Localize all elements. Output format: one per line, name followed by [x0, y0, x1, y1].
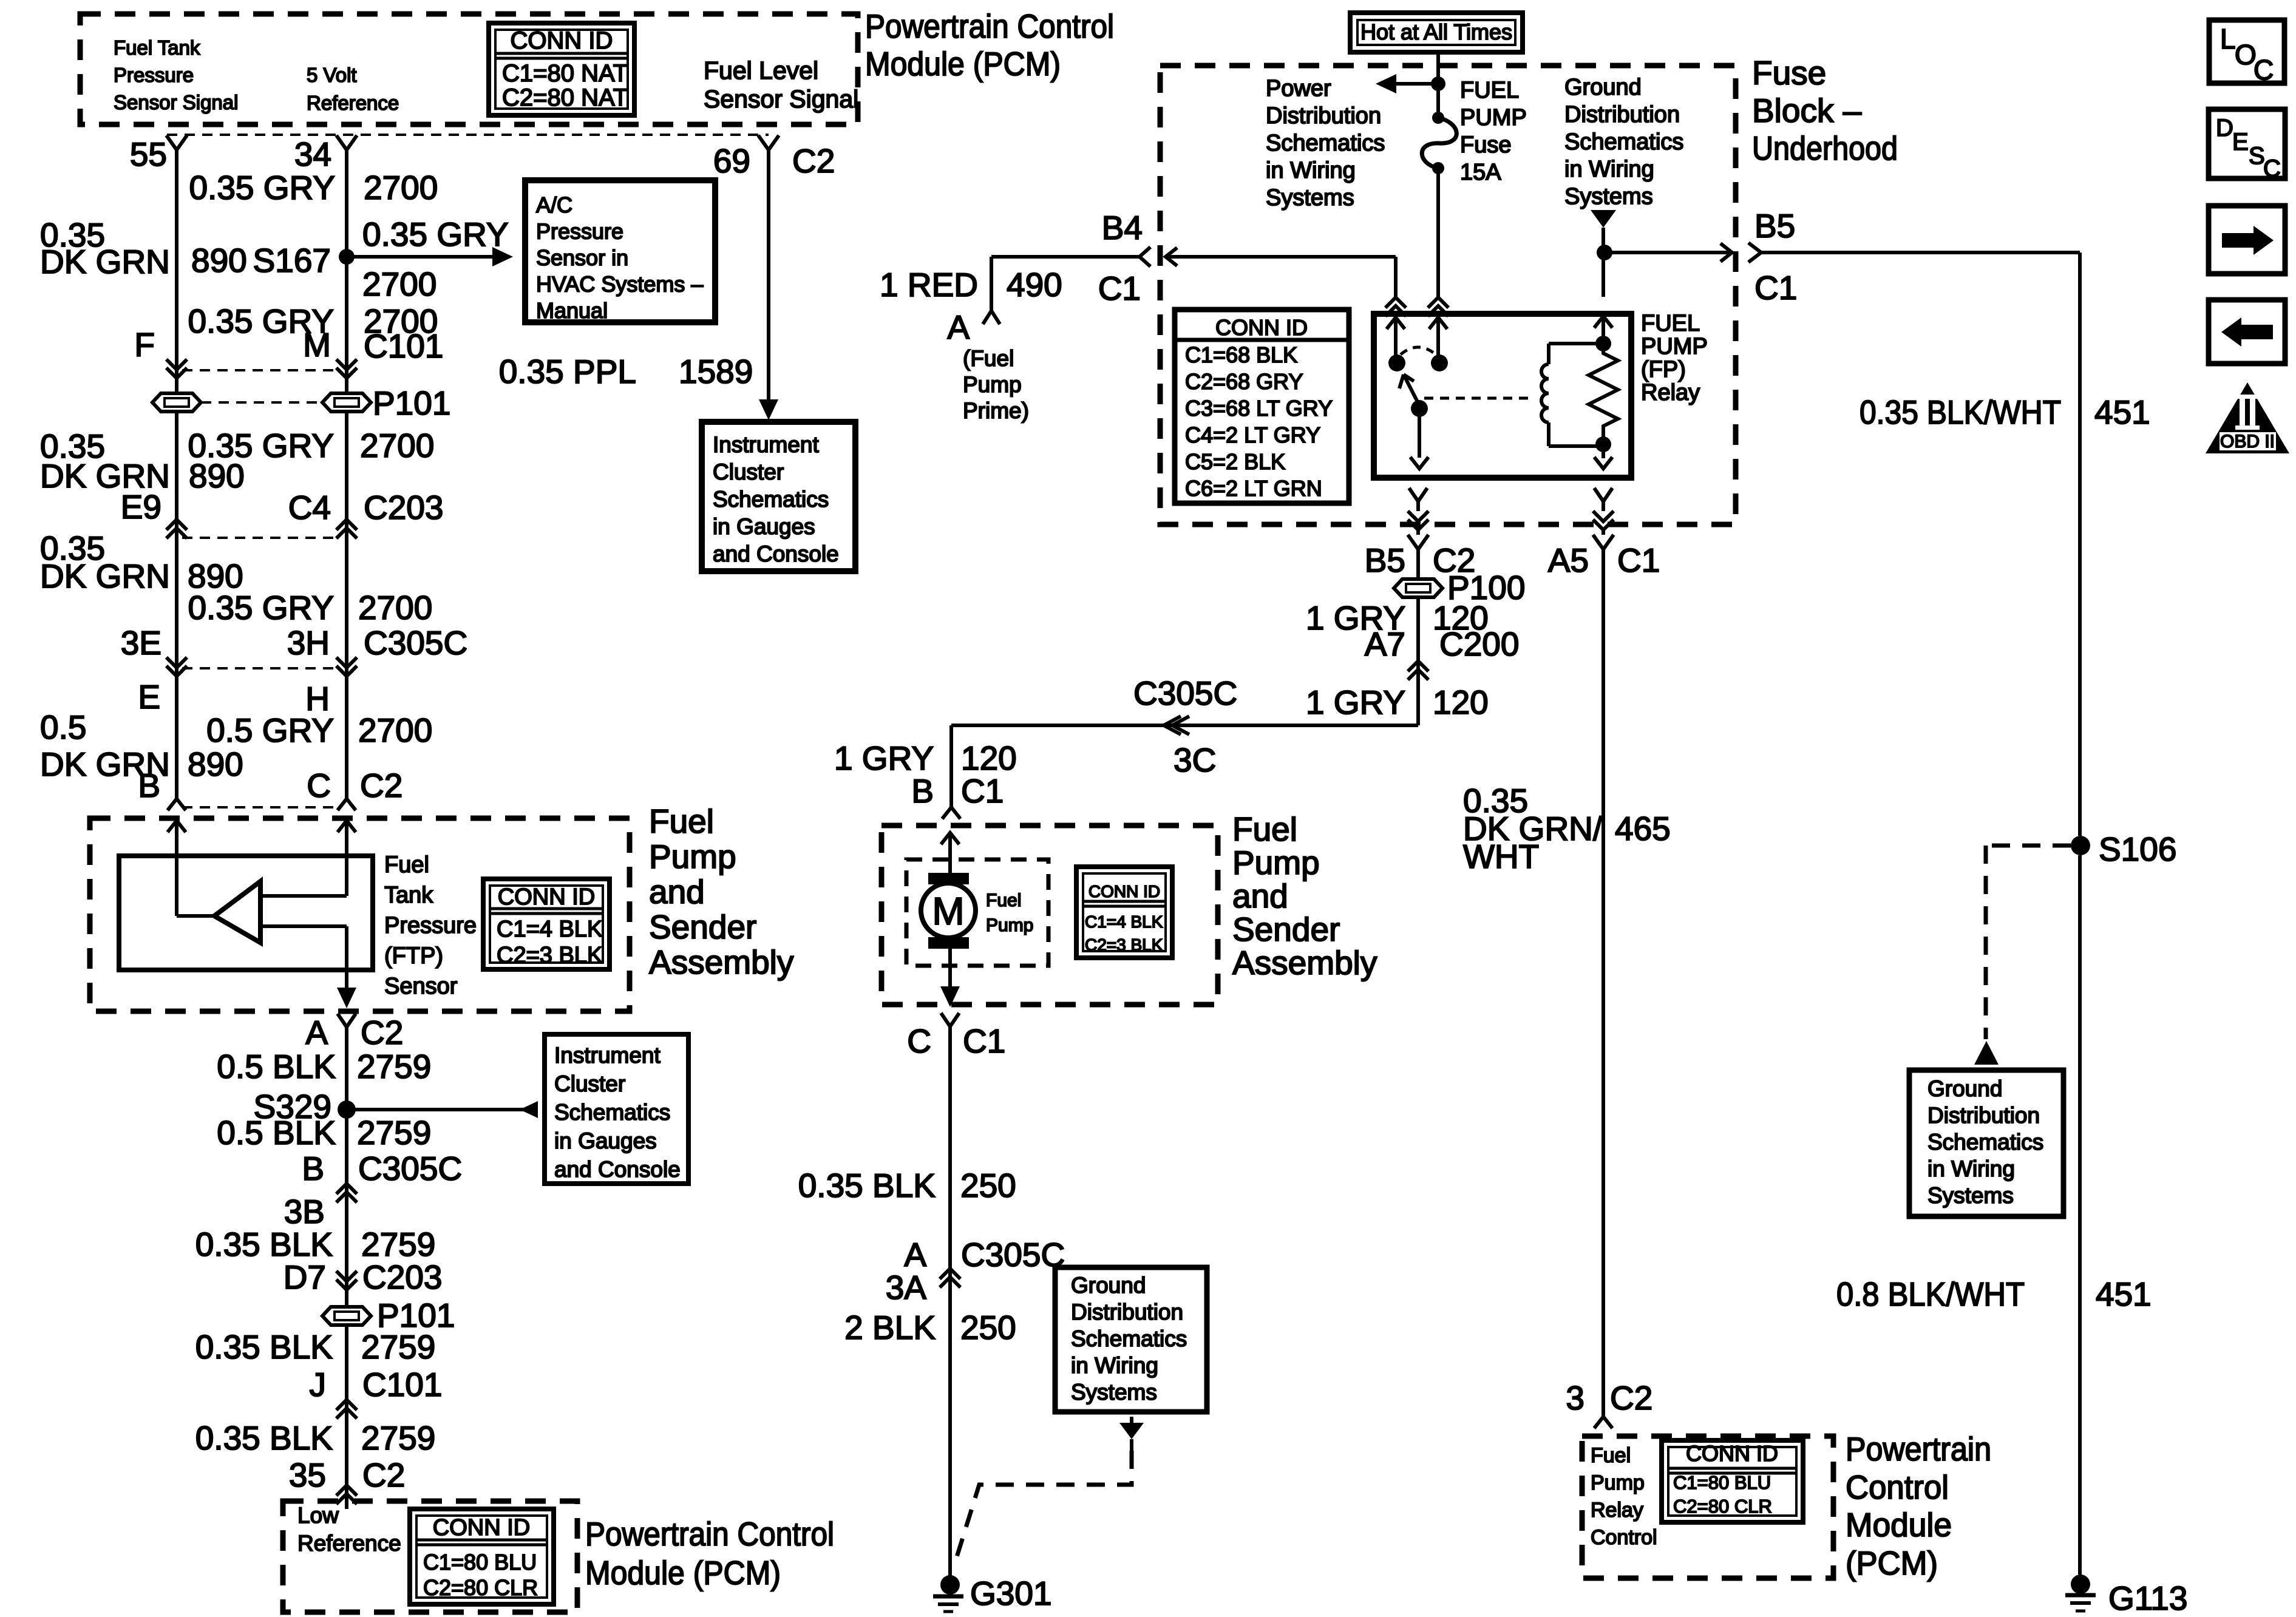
- svg-text:2700: 2700: [358, 589, 432, 626]
- svg-text:1589: 1589: [679, 353, 753, 390]
- svg-text:C1: C1: [961, 772, 1004, 810]
- svg-text:451: 451: [2094, 393, 2150, 431]
- svg-text:CONN ID: CONN ID: [498, 884, 595, 910]
- svg-text:C2: C2: [792, 142, 835, 180]
- svg-text:Module (PCM): Module (PCM): [865, 45, 1061, 83]
- svg-text:0.35 BLK: 0.35 BLK: [195, 1225, 333, 1263]
- svg-text:3B: 3B: [284, 1193, 325, 1230]
- svg-text:Schematics: Schematics: [1266, 131, 1385, 156]
- svg-text:Sensor Signal: Sensor Signal: [704, 85, 858, 113]
- svg-text:C1=4 BLK: C1=4 BLK: [1085, 912, 1163, 931]
- svg-text:DK GRN: DK GRN: [40, 557, 170, 595]
- svg-text:and: and: [1232, 877, 1288, 915]
- svg-text:(Fuel: (Fuel: [963, 346, 1014, 371]
- svg-text:in Wiring: in Wiring: [1266, 158, 1356, 183]
- svg-text:C4=2 LT GRY: C4=2 LT GRY: [1185, 422, 1320, 447]
- svg-text:1 GRY: 1 GRY: [834, 739, 934, 777]
- svg-text:A/C: A/C: [536, 192, 572, 217]
- svg-text:C101: C101: [364, 327, 443, 365]
- svg-text:DK GRN: DK GRN: [40, 243, 170, 280]
- svg-text:5 Volt: 5 Volt: [307, 64, 357, 86]
- svg-text:C203: C203: [364, 489, 443, 526]
- svg-text:C: C: [907, 1022, 931, 1060]
- svg-text:C200: C200: [1439, 625, 1519, 663]
- svg-text:890: 890: [188, 745, 243, 783]
- svg-text:Relay: Relay: [1591, 1499, 1643, 1522]
- svg-text:3C: 3C: [1173, 741, 1216, 779]
- svg-text:C2=80 CLR: C2=80 CLR: [1673, 1496, 1772, 1517]
- svg-text:C6=2 LT GRN: C6=2 LT GRN: [1185, 476, 1322, 501]
- svg-text:Pump: Pump: [649, 838, 736, 875]
- svg-text:C2: C2: [1610, 1379, 1652, 1417]
- svg-text:3: 3: [1566, 1379, 1584, 1417]
- svg-text:A: A: [904, 1236, 926, 1273]
- svg-text:and: and: [649, 873, 705, 910]
- svg-text:C305C: C305C: [1133, 674, 1237, 712]
- svg-text:Powertrain Control: Powertrain Control: [585, 1515, 834, 1553]
- svg-text:Schematics: Schematics: [1564, 129, 1683, 155]
- svg-text:1 GRY: 1 GRY: [1306, 683, 1405, 721]
- svg-text:M: M: [932, 889, 964, 933]
- svg-text:Powertrain: Powertrain: [1846, 1430, 1991, 1468]
- svg-text:C1=80 BLU: C1=80 BLU: [1673, 1472, 1771, 1493]
- svg-text:Pressure: Pressure: [536, 219, 623, 244]
- svg-text:0.35 GRY: 0.35 GRY: [362, 215, 509, 253]
- svg-text:Schematics: Schematics: [713, 487, 829, 512]
- svg-text:Ground: Ground: [1564, 75, 1642, 100]
- svg-text:0.35 BLK/WHT: 0.35 BLK/WHT: [1860, 393, 2061, 431]
- svg-text:0.5 GRY: 0.5 GRY: [206, 711, 334, 749]
- svg-text:C1: C1: [1754, 269, 1797, 307]
- svg-text:in Wiring: in Wiring: [1564, 157, 1654, 182]
- svg-text:D: D: [2216, 115, 2233, 141]
- svg-text:Powertrain Control: Powertrain Control: [865, 7, 1114, 45]
- svg-text:Systems: Systems: [1071, 1380, 1157, 1405]
- svg-text:F: F: [134, 326, 155, 364]
- svg-text:C2=80 CLR: C2=80 CLR: [423, 1575, 538, 1600]
- svg-text:Underhood: Underhood: [1752, 129, 1898, 167]
- svg-text:E9: E9: [121, 488, 161, 526]
- svg-text:Schematics: Schematics: [554, 1100, 670, 1125]
- svg-text:B4: B4: [1102, 209, 1143, 246]
- svg-text:250: 250: [960, 1167, 1016, 1204]
- svg-text:C101: C101: [362, 1366, 442, 1403]
- svg-text:Assembly: Assembly: [1232, 944, 1377, 981]
- svg-text:35: 35: [289, 1456, 326, 1494]
- svg-text:Fuel Tank: Fuel Tank: [114, 36, 200, 59]
- svg-text:Hot at All Times: Hot at All Times: [1360, 19, 1512, 44]
- svg-text:Systems: Systems: [1266, 185, 1354, 211]
- svg-text:Pressure: Pressure: [114, 64, 194, 86]
- svg-text:0.5 BLK: 0.5 BLK: [217, 1114, 336, 1151]
- svg-text:Fuse: Fuse: [1460, 132, 1511, 158]
- svg-text:Instrument: Instrument: [713, 432, 820, 457]
- svg-text:and Console: and Console: [554, 1157, 681, 1182]
- svg-text:Sensor in: Sensor in: [536, 245, 628, 270]
- svg-text:C2: C2: [361, 1014, 403, 1051]
- svg-text:B: B: [911, 772, 934, 810]
- svg-text:PUMP: PUMP: [1460, 105, 1527, 131]
- svg-text:890: 890: [191, 242, 247, 279]
- svg-text:(FTP): (FTP): [384, 943, 443, 969]
- svg-text:69: 69: [713, 142, 750, 180]
- svg-text:C2=68 GRY: C2=68 GRY: [1185, 369, 1303, 394]
- svg-text:A: A: [947, 308, 970, 346]
- svg-text:C: C: [2263, 155, 2281, 182]
- svg-text:A: A: [305, 1014, 328, 1051]
- svg-text:Block –: Block –: [1752, 92, 1862, 129]
- svg-text:Systems: Systems: [1927, 1183, 2014, 1208]
- svg-text:CONN ID: CONN ID: [511, 27, 613, 54]
- svg-text:Schematics: Schematics: [1071, 1326, 1187, 1351]
- svg-text:0.5 BLK: 0.5 BLK: [217, 1048, 336, 1085]
- svg-text:Distribution: Distribution: [1927, 1103, 2040, 1128]
- svg-text:C1=4 BLK: C1=4 BLK: [497, 917, 602, 942]
- svg-text:0.35 GRY: 0.35 GRY: [188, 589, 334, 626]
- svg-text:Distribution: Distribution: [1071, 1300, 1183, 1324]
- svg-text:E: E: [138, 678, 160, 716]
- svg-text:C1=68 BLK: C1=68 BLK: [1185, 342, 1297, 367]
- svg-text:G113: G113: [2108, 1579, 2187, 1617]
- svg-text:2700: 2700: [360, 427, 434, 464]
- svg-text:Sender: Sender: [1232, 910, 1340, 948]
- svg-text:C3=68 LT GRY: C3=68 LT GRY: [1185, 396, 1333, 421]
- svg-text:3A: 3A: [886, 1269, 927, 1306]
- svg-text:2759: 2759: [357, 1048, 431, 1085]
- svg-text:C: C: [307, 767, 331, 804]
- svg-text:2759: 2759: [357, 1114, 431, 1151]
- svg-text:Distribution: Distribution: [1266, 103, 1381, 129]
- svg-text:Distribution: Distribution: [1564, 102, 1680, 127]
- svg-text:C2=80 NAT: C2=80 NAT: [502, 84, 628, 111]
- svg-text:C4: C4: [288, 489, 331, 526]
- svg-text:C2: C2: [360, 767, 402, 804]
- svg-text:PUMP: PUMP: [1641, 334, 1708, 359]
- svg-text:C1: C1: [963, 1022, 1005, 1060]
- svg-text:Relay: Relay: [1641, 380, 1700, 405]
- svg-text:M: M: [303, 326, 331, 364]
- svg-text:D7: D7: [284, 1258, 326, 1296]
- svg-text:55: 55: [130, 135, 167, 173]
- svg-text:S: S: [2249, 143, 2265, 169]
- svg-text:CONN ID: CONN ID: [1089, 882, 1160, 901]
- svg-text:Module: Module: [1846, 1506, 1952, 1544]
- svg-text:Pump: Pump: [1232, 844, 1320, 881]
- svg-text:C: C: [2254, 54, 2274, 86]
- svg-text:Systems: Systems: [1564, 184, 1653, 209]
- svg-text:Sensor Signal: Sensor Signal: [114, 91, 238, 114]
- svg-text:2700: 2700: [358, 711, 432, 749]
- svg-text:Pump: Pump: [986, 915, 1033, 935]
- svg-text:C2=3 BLK: C2=3 BLK: [497, 943, 602, 968]
- svg-text:C1: C1: [1617, 541, 1660, 579]
- svg-text:2700: 2700: [362, 265, 436, 303]
- svg-text:C305C: C305C: [961, 1236, 1065, 1273]
- svg-text:(PCM): (PCM): [1846, 1544, 1938, 1582]
- svg-text:2759: 2759: [361, 1419, 435, 1457]
- svg-text:CONN ID: CONN ID: [1686, 1441, 1778, 1466]
- svg-text:Reference: Reference: [307, 92, 399, 114]
- svg-text:P101: P101: [373, 384, 450, 422]
- svg-text:in Gauges: in Gauges: [713, 514, 815, 539]
- svg-text:WHT: WHT: [1463, 838, 1539, 875]
- svg-text:0.35 BLK: 0.35 BLK: [195, 1328, 333, 1366]
- svg-text:A5: A5: [1548, 541, 1589, 579]
- svg-text:1 RED: 1 RED: [880, 266, 978, 303]
- svg-text:15A: 15A: [1460, 160, 1501, 185]
- svg-text:2700: 2700: [364, 169, 438, 206]
- svg-text:B5: B5: [1754, 207, 1795, 245]
- svg-text:C1: C1: [1098, 269, 1141, 307]
- svg-text:Assembly: Assembly: [649, 943, 794, 981]
- svg-text:(FP): (FP): [1641, 357, 1686, 382]
- svg-text:C305C: C305C: [364, 624, 467, 662]
- svg-text:HVAC Systems –: HVAC Systems –: [536, 272, 703, 297]
- svg-text:B: B: [302, 1150, 324, 1187]
- svg-text:OBD II: OBD II: [2220, 432, 2275, 452]
- svg-text:465: 465: [1615, 810, 1671, 847]
- svg-text:and Console: and Console: [713, 541, 839, 566]
- svg-text:J: J: [310, 1366, 327, 1403]
- svg-text:0.35 BLK: 0.35 BLK: [798, 1167, 936, 1204]
- svg-text:Ground: Ground: [1071, 1273, 1146, 1298]
- svg-text:Cluster: Cluster: [554, 1071, 625, 1096]
- svg-text:0.5: 0.5: [40, 708, 86, 746]
- svg-text:Power: Power: [1266, 76, 1331, 101]
- svg-text:0.8 BLK/WHT: 0.8 BLK/WHT: [1836, 1275, 2025, 1313]
- svg-text:Fuel: Fuel: [986, 890, 1021, 910]
- svg-text:in Gauges: in Gauges: [554, 1128, 657, 1153]
- svg-text:C5=2 BLK: C5=2 BLK: [1185, 449, 1285, 474]
- svg-text:Pump: Pump: [1591, 1471, 1645, 1494]
- svg-text:in Wiring: in Wiring: [1927, 1156, 2015, 1181]
- svg-text:B5: B5: [1365, 541, 1405, 579]
- svg-text:Fuel: Fuel: [384, 852, 429, 878]
- svg-text:A7: A7: [1365, 625, 1405, 663]
- svg-text:Low: Low: [297, 1503, 339, 1528]
- svg-text:C2=3 BLK: C2=3 BLK: [1085, 935, 1163, 954]
- svg-text:890: 890: [189, 457, 245, 495]
- svg-text:120: 120: [961, 739, 1017, 777]
- svg-text:Sender: Sender: [649, 908, 756, 946]
- svg-text:Fuse: Fuse: [1752, 54, 1826, 92]
- svg-text:0.35 GRY: 0.35 GRY: [189, 169, 335, 206]
- svg-text:C2: C2: [362, 1456, 405, 1494]
- svg-text:Control: Control: [1846, 1468, 1949, 1506]
- svg-text:Module (PCM): Module (PCM): [585, 1554, 781, 1592]
- svg-text:G301: G301: [970, 1575, 1052, 1612]
- svg-text:Fuel Level: Fuel Level: [704, 56, 818, 84]
- svg-text:S167: S167: [253, 242, 331, 279]
- svg-text:Control: Control: [1591, 1526, 1657, 1549]
- svg-text:Cluster: Cluster: [713, 459, 784, 484]
- svg-text:S106: S106: [2099, 830, 2176, 868]
- svg-text:Fuel: Fuel: [1232, 810, 1297, 848]
- svg-text:3E: 3E: [121, 624, 161, 662]
- svg-text:2 BLK: 2 BLK: [844, 1309, 936, 1346]
- svg-text:B: B: [138, 767, 160, 804]
- svg-text:FUEL: FUEL: [1460, 78, 1519, 103]
- svg-text:Schematics: Schematics: [1927, 1130, 2043, 1154]
- svg-text:C203: C203: [362, 1258, 442, 1296]
- svg-text:34: 34: [294, 135, 331, 173]
- svg-text:490: 490: [1007, 266, 1062, 303]
- svg-text:120: 120: [1433, 683, 1489, 721]
- svg-text:Fuel: Fuel: [1591, 1444, 1631, 1467]
- svg-text:Instrument: Instrument: [554, 1043, 661, 1068]
- svg-text:3H: 3H: [287, 624, 330, 662]
- svg-text:Manual: Manual: [536, 298, 608, 323]
- svg-text:C1=80 BLU: C1=80 BLU: [423, 1550, 537, 1575]
- svg-text:FUEL: FUEL: [1641, 311, 1700, 336]
- svg-text:C1=80 NAT: C1=80 NAT: [502, 60, 628, 87]
- svg-text:2759: 2759: [361, 1225, 435, 1263]
- svg-text:L: L: [2220, 23, 2236, 55]
- svg-text:Sensor: Sensor: [384, 974, 458, 999]
- svg-text:2759: 2759: [361, 1328, 435, 1366]
- svg-text:Tank: Tank: [384, 883, 433, 908]
- svg-text:0.35 BLK: 0.35 BLK: [195, 1419, 333, 1457]
- svg-text:Fuel: Fuel: [649, 802, 714, 840]
- svg-text:CONN ID: CONN ID: [1215, 315, 1308, 340]
- svg-text:Pressure: Pressure: [384, 913, 477, 938]
- svg-text:Ground: Ground: [1927, 1076, 2002, 1101]
- svg-text:C305C: C305C: [358, 1150, 462, 1187]
- svg-text:250: 250: [960, 1309, 1016, 1346]
- svg-text:0.35 PPL: 0.35 PPL: [499, 353, 636, 390]
- svg-text:Pump: Pump: [963, 372, 1022, 397]
- svg-text:Prime): Prime): [963, 398, 1029, 423]
- svg-text:451: 451: [2096, 1275, 2152, 1313]
- svg-text:in Wiring: in Wiring: [1071, 1353, 1158, 1378]
- svg-text:E: E: [2232, 129, 2249, 155]
- svg-text:CONN ID: CONN ID: [433, 1515, 530, 1541]
- svg-text:Reference: Reference: [297, 1531, 401, 1556]
